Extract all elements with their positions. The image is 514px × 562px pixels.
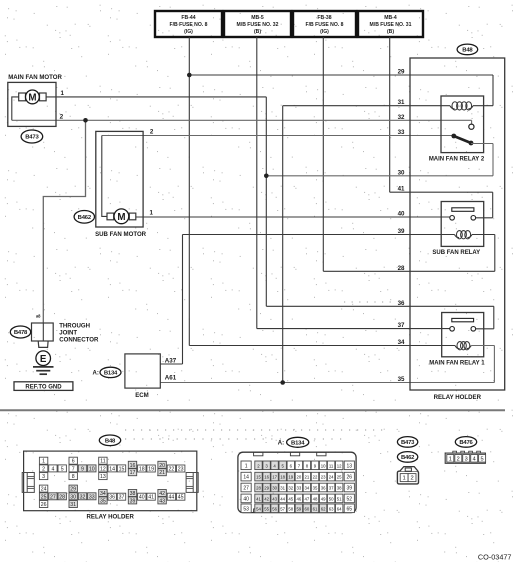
svg-text:22: 22	[169, 467, 175, 473]
svg-text:36: 36	[398, 300, 405, 307]
svg-text:40: 40	[243, 496, 249, 502]
relay2 switch out wire	[471, 143, 493, 145]
svg-text:2: 2	[457, 456, 460, 462]
separator line	[0, 409, 505, 411]
svg-text:B48: B48	[462, 48, 473, 54]
svg-text:SUB FAN RELAY: SUB FAN RELAY	[432, 250, 480, 256]
svg-text:26: 26	[41, 502, 47, 508]
junction dot wire35/31 vertical	[280, 380, 285, 385]
svg-text:65: 65	[347, 506, 353, 512]
svg-text:62: 62	[321, 506, 326, 511]
ground hatch lines	[33, 366, 54, 368]
svg-text:33: 33	[297, 486, 302, 491]
relay U-MAIN-FAN-RELAY-1 box	[442, 313, 484, 357]
svg-text:14: 14	[243, 475, 249, 481]
wire ground branch	[43, 120, 85, 323]
svg-text:35: 35	[398, 376, 405, 383]
relay2 movable arm with contact dots	[454, 136, 471, 143]
B134 pin grid	[241, 461, 354, 513]
svg-text:13: 13	[347, 463, 353, 469]
sub relay right contact wire	[476, 217, 493, 219]
wire FB-38 vertical drop	[322, 37, 324, 271]
svg-text:31: 31	[280, 486, 285, 491]
svg-text:37: 37	[398, 322, 405, 329]
wire vertical ECM A37 to 39	[182, 235, 184, 365]
wire 32 (from main fan motor 2)	[12, 119, 472, 121]
svg-text:55: 55	[264, 506, 269, 511]
relay1 closed contact bar	[452, 318, 474, 321]
svg-text:33: 33	[398, 129, 405, 136]
svg-text:21: 21	[305, 475, 310, 480]
svg-text:M/B FUSE NO. 31: M/B FUSE NO. 31	[370, 22, 412, 28]
svg-text:45: 45	[178, 495, 184, 501]
svg-text:54: 54	[256, 506, 261, 511]
svg-text:25: 25	[337, 475, 342, 480]
B48 pin group 1-5	[39, 457, 66, 480]
junction dot wire30/motor1 vertical	[264, 174, 269, 179]
svg-text:57: 57	[280, 506, 285, 511]
svg-text:2: 2	[60, 114, 64, 121]
wire vertical main fan motor 1 to 30/36	[265, 97, 267, 306]
svg-text:42: 42	[264, 496, 269, 501]
relay1 coil out wire	[471, 345, 494, 347]
fuse box FB-38 F/B FUSE NO. 8 (IG)	[293, 11, 356, 37]
svg-text:A61: A61	[165, 374, 177, 381]
svg-text:13: 13	[100, 474, 106, 480]
svg-text:49: 49	[321, 496, 326, 501]
5-pin top tabs	[453, 451, 457, 453]
svg-text:36: 36	[109, 495, 115, 501]
fuse box FB-44 F/B FUSE NO. 8 (IG)	[155, 11, 222, 37]
svg-text:5: 5	[481, 456, 484, 462]
connector oval B473 (bottom view)	[397, 437, 417, 448]
svg-text:7: 7	[72, 466, 75, 472]
svg-text:9: 9	[81, 466, 84, 472]
junction dot motor2/ground branch	[83, 118, 88, 123]
svg-text:B48: B48	[105, 438, 116, 444]
main motor symbol M	[19, 93, 26, 101]
B134 top tabs	[254, 452, 263, 456]
connector oval B473	[21, 130, 43, 143]
svg-text:22: 22	[313, 475, 318, 480]
main motor wire 1	[46, 96, 266, 98]
dotted noise row 1	[125, 429, 388, 431]
connector oval B462	[74, 211, 94, 224]
connector oval B476 (bottom view)	[455, 437, 476, 448]
svg-text:46: 46	[297, 496, 302, 501]
svg-text:M: M	[28, 92, 36, 103]
svg-text:JOINT: JOINT	[59, 330, 77, 337]
svg-text:60: 60	[305, 506, 310, 511]
svg-text:51: 51	[337, 496, 342, 501]
svg-text:35: 35	[100, 498, 106, 504]
svg-text:18: 18	[280, 475, 285, 480]
svg-text:F/B FUSE NO. 8: F/B FUSE NO. 8	[170, 22, 208, 28]
wire 31	[283, 105, 450, 107]
wire 35 (from ECM A61)	[160, 382, 494, 384]
svg-text:MB-5: MB-5	[251, 15, 264, 21]
wire 41	[390, 191, 493, 193]
svg-text:53: 53	[243, 506, 249, 512]
svg-text:CO-03477: CO-03477	[478, 553, 512, 562]
svg-text:2: 2	[150, 129, 154, 136]
connector oval B48	[457, 44, 478, 55]
svg-text:64: 64	[337, 506, 342, 511]
connector B134 body	[238, 452, 356, 512]
svg-text:44: 44	[280, 496, 285, 501]
svg-text:10: 10	[89, 466, 95, 472]
svg-text:19: 19	[148, 467, 154, 473]
svg-text:a8: a8	[36, 314, 41, 319]
svg-text:24: 24	[329, 475, 334, 480]
svg-text:27: 27	[243, 486, 249, 492]
svg-text:CONNECTOR: CONNECTOR	[59, 337, 99, 344]
wire relay1 coil to 35 vertical	[493, 346, 495, 383]
svg-text:(B): (B)	[387, 29, 394, 35]
sub relay closed contact bar	[452, 208, 474, 212]
svg-text:38: 38	[130, 491, 136, 497]
svg-text:B476: B476	[459, 440, 473, 446]
sub relay contact circles	[450, 216, 455, 221]
wire 41 to sub relay contact vertical	[492, 192, 494, 218]
svg-text:39: 39	[347, 486, 353, 492]
relay2 fixed contact circle (pin 32)	[471, 120, 473, 124]
main motor inner wire loop	[12, 97, 19, 120]
svg-text:29: 29	[264, 486, 269, 491]
ref to gnd box	[14, 382, 73, 391]
svg-text:A:: A:	[93, 371, 99, 377]
svg-text:30: 30	[70, 494, 76, 500]
wire 33 (from sub fan motor 2)	[102, 135, 454, 137]
svg-text:E: E	[40, 354, 47, 365]
svg-text:ECM: ECM	[135, 392, 149, 399]
svg-text:12: 12	[100, 466, 106, 472]
through joint connector neck	[38, 341, 48, 347]
svg-text:17: 17	[272, 475, 277, 480]
svg-text:32: 32	[288, 486, 293, 491]
svg-text:1: 1	[150, 210, 154, 217]
B48 pin group 34-37	[99, 490, 126, 505]
connector B48 relay holder body	[24, 451, 197, 511]
svg-text:5: 5	[61, 466, 64, 472]
svg-text:41: 41	[148, 495, 154, 501]
svg-text:RELAY HOLDER: RELAY HOLDER	[434, 394, 482, 401]
svg-text:50: 50	[329, 496, 334, 501]
svg-text:8: 8	[72, 474, 75, 480]
dotted noise row 2	[125, 438, 345, 440]
svg-text:38: 38	[337, 486, 342, 491]
svg-text:10: 10	[321, 463, 326, 468]
svg-text:A37: A37	[165, 358, 177, 365]
svg-text:29: 29	[398, 69, 405, 76]
B48 left bracket	[22, 473, 34, 493]
svg-text:B134: B134	[104, 371, 118, 377]
wire 39	[183, 234, 455, 236]
svg-text:MB-4: MB-4	[384, 15, 397, 21]
B48 pin group 16-19	[128, 461, 155, 476]
svg-text:34: 34	[398, 339, 405, 346]
svg-text:30: 30	[398, 169, 405, 176]
svg-text:28: 28	[398, 265, 405, 272]
svg-text:MAIN FAN RELAY 1: MAIN FAN RELAY 1	[429, 360, 485, 366]
svg-text:31: 31	[398, 99, 405, 106]
wire 36	[266, 305, 494, 307]
svg-text:35: 35	[313, 486, 318, 491]
svg-text:15: 15	[119, 466, 125, 472]
svg-text:(IG): (IG)	[184, 29, 193, 35]
svg-text:14: 14	[109, 466, 115, 472]
svg-text:1: 1	[449, 456, 452, 462]
svg-text:1: 1	[61, 90, 65, 97]
svg-text:M/B FUSE NO. 32: M/B FUSE NO. 32	[237, 22, 279, 28]
svg-text:63: 63	[329, 506, 334, 511]
svg-text:18: 18	[139, 467, 145, 473]
svg-text:56: 56	[272, 506, 277, 511]
connector oval B478	[10, 326, 30, 338]
svg-text:1: 1	[402, 476, 405, 482]
wire 30	[266, 175, 493, 177]
svg-text:24: 24	[41, 487, 47, 493]
svg-text:11: 11	[329, 463, 334, 468]
B48 pin group 20-23	[158, 461, 185, 476]
svg-text:26: 26	[347, 475, 353, 481]
relay2 coil	[450, 106, 455, 109]
B48 right bracket	[186, 473, 198, 493]
wire 37	[257, 328, 450, 330]
relay U-MAIN-FAN-RELAY-2 box	[441, 96, 484, 153]
svg-text:(B): (B)	[254, 29, 261, 35]
svg-text:3: 3	[42, 474, 45, 480]
svg-text:40: 40	[398, 211, 405, 218]
connector 5-pin body	[445, 453, 485, 463]
junction dot wire29/FB-44	[187, 73, 192, 78]
sub motor symbol M	[107, 213, 114, 220]
svg-text:52: 52	[347, 496, 353, 502]
svg-text:32: 32	[398, 114, 405, 121]
svg-text:20: 20	[297, 475, 302, 480]
svg-text:32: 32	[80, 494, 86, 500]
svg-text:36: 36	[321, 486, 326, 491]
svg-text:37: 37	[119, 495, 125, 501]
svg-text:A:: A:	[278, 441, 284, 447]
svg-text:39: 39	[130, 498, 136, 504]
svg-text:2: 2	[42, 466, 45, 472]
svg-text:M: M	[117, 212, 125, 223]
svg-text:27: 27	[50, 494, 56, 500]
svg-text:2: 2	[410, 476, 413, 482]
svg-text:B478: B478	[14, 330, 28, 336]
svg-text:SUB FAN MOTOR: SUB FAN MOTOR	[95, 231, 147, 238]
svg-text:58: 58	[288, 506, 293, 511]
svg-text:43: 43	[159, 498, 165, 504]
svg-text:37: 37	[329, 486, 334, 491]
svg-text:29: 29	[70, 487, 76, 493]
svg-text:F/B FUSE NO. 8: F/B FUSE NO. 8	[306, 22, 344, 28]
connector oval B462 (bottom view)	[397, 452, 417, 463]
svg-text:31: 31	[70, 502, 76, 508]
connector 2-pin body	[397, 471, 418, 484]
B48 pin group 24-28	[39, 485, 66, 508]
svg-text:42: 42	[159, 491, 165, 497]
svg-text:47: 47	[305, 496, 310, 501]
relay holder box B48	[410, 58, 505, 390]
svg-text:11: 11	[100, 459, 105, 465]
B48 pin group 42-45	[158, 490, 185, 505]
svg-text:(IG): (IG)	[320, 29, 329, 35]
svg-text:B462: B462	[401, 455, 415, 461]
motor M2 SUB FAN MOTOR box	[96, 131, 143, 227]
connector oval B48 (bottom view)	[99, 435, 120, 446]
svg-text:21: 21	[159, 470, 165, 476]
svg-text:1: 1	[42, 459, 45, 465]
wire 29	[189, 74, 493, 76]
B48 pin group 38-41	[128, 490, 155, 505]
svg-text:4: 4	[51, 466, 54, 472]
wire FB-44 vertical drop	[188, 37, 190, 346]
dotted noise row 3	[344, 301, 397, 303]
relay1 coil	[455, 346, 460, 349]
svg-text:40: 40	[139, 495, 145, 501]
relay2 coil out wire	[473, 105, 493, 107]
svg-text:28: 28	[256, 486, 261, 491]
wire ECM A37	[160, 363, 182, 365]
sub relay coil	[455, 235, 460, 238]
svg-text:34: 34	[305, 486, 310, 491]
wire vertical 31 to 35	[282, 106, 284, 383]
B48 pin group 11-15	[99, 457, 126, 480]
svg-text:B134: B134	[291, 440, 305, 446]
svg-text:4: 4	[473, 456, 476, 462]
wire 29 to relay2 coil vertical	[492, 75, 494, 106]
connector 5-pin cells	[447, 455, 486, 463]
fuse box MB-4 M/B FUSE NO. 31 (B)	[358, 11, 423, 37]
svg-text:25: 25	[41, 494, 47, 500]
sub relay coil out wire	[472, 234, 495, 236]
svg-text:16: 16	[130, 463, 136, 469]
ECM box	[125, 354, 160, 388]
sub motor inner wire loop	[102, 136, 107, 217]
wire 34	[189, 345, 455, 347]
svg-text:16: 16	[264, 475, 269, 480]
wire MB-4 vertical drop	[389, 37, 391, 192]
through joint connector box B478	[32, 323, 54, 341]
svg-text:20: 20	[159, 463, 165, 469]
svg-text:23: 23	[321, 475, 326, 480]
svg-text:34: 34	[100, 491, 106, 497]
relay U-SUB-FAN-RELAY box	[441, 202, 484, 247]
motor M1 MAIN FAN MOTOR box	[8, 82, 56, 126]
svg-text:44: 44	[169, 495, 175, 501]
svg-text:REF.TO GND: REF.TO GND	[25, 385, 62, 391]
wire 36 to relay1 contact vertical	[493, 306, 495, 329]
svg-text:59: 59	[297, 506, 302, 511]
svg-text:41: 41	[398, 186, 405, 193]
svg-text:48: 48	[313, 496, 318, 501]
svg-text:12: 12	[337, 463, 342, 468]
svg-text:B462: B462	[78, 215, 92, 221]
svg-text:23: 23	[178, 467, 184, 473]
svg-text:43: 43	[272, 496, 277, 501]
svg-text:THROUGH: THROUGH	[59, 323, 90, 330]
svg-text:61: 61	[313, 506, 318, 511]
wire 40 (from sub fan motor 1)	[136, 216, 450, 218]
svg-text:RELAY HOLDER: RELAY HOLDER	[86, 514, 134, 521]
svg-text:FB-38: FB-38	[317, 15, 331, 21]
svg-text:45: 45	[288, 496, 293, 501]
ground symbol E	[36, 351, 51, 366]
svg-text:MAIN FAN MOTOR: MAIN FAN MOTOR	[8, 74, 62, 81]
B48 pin group 29-33	[69, 485, 96, 508]
svg-text:3: 3	[465, 456, 468, 462]
svg-text:28: 28	[59, 494, 65, 500]
svg-text:6: 6	[72, 459, 75, 465]
svg-text:15: 15	[256, 475, 261, 480]
relay1 right contact wire	[476, 328, 494, 330]
svg-text:B473: B473	[401, 440, 415, 446]
svg-text:33: 33	[89, 494, 95, 500]
wire MB-5 vertical drop	[256, 37, 258, 329]
svg-text:1: 1	[245, 463, 248, 469]
svg-text:41: 41	[256, 496, 261, 501]
svg-text:B473: B473	[25, 135, 39, 141]
svg-text:39: 39	[398, 228, 405, 235]
wire 28	[323, 270, 495, 272]
relay1 contact circles	[450, 327, 455, 332]
svg-text:19: 19	[288, 475, 293, 480]
svg-text:MAIN FAN RELAY 2: MAIN FAN RELAY 2	[429, 156, 485, 162]
fuse box MB-5 M/B FUSE NO. 32 (B)	[224, 11, 291, 37]
B48 pin group 6-10	[69, 457, 96, 480]
svg-text:FB-44: FB-44	[181, 15, 195, 21]
wire 28 to sub relay coil vertical	[494, 235, 496, 272]
svg-text:17: 17	[130, 470, 136, 476]
wire relay2 switch out to 30 vertical	[492, 144, 494, 176]
svg-text:30: 30	[272, 486, 277, 491]
connector 2-pin cells	[400, 474, 408, 482]
B134 bottom tabs	[254, 509, 263, 513]
